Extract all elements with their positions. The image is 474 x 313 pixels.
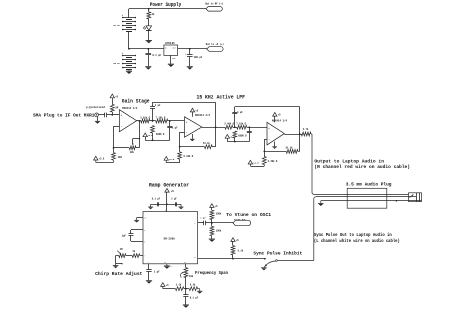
svg-text:51.1k: 51.1k: [203, 142, 211, 145]
wire U2A output: [137, 120, 141, 122]
svg-text:10: 10: [184, 262, 186, 264]
capacitor C2 100uF: [189, 49, 191, 55]
svg-text:11: 11: [194, 257, 196, 259]
node B1/B2 junction: [128, 48, 130, 50]
ground C8: [150, 204, 152, 206]
resistor R8 51.1k: [205, 145, 213, 149]
node C1 tap: [147, 48, 149, 50]
svg-text:1.1k: 1.1k: [176, 284, 182, 287]
resistor R1 1k LED: [148, 9, 150, 12]
resistor R5 3.01k: [141, 119, 150, 123]
resistor R6 680k bias: [151, 126, 155, 133]
node feedback junction: [113, 147, 115, 149]
wire C3 to node: [107, 114, 120, 116]
resistor R4 499: [113, 148, 115, 153]
potentiometer R16 1M chirp rate: [140, 255, 143, 257]
svg-text:13: 13: [144, 218, 146, 220]
svg-text:Chirp Rate Adjust: Chirp Rate Adjust: [95, 271, 143, 277]
svg-text:1 µF: 1 µF: [154, 271, 160, 274]
svg-text:0.1 µF: 0.1 µF: [152, 54, 161, 57]
power +5 flag R2: [110, 94, 114, 98]
resistor R7 7.15k: [156, 119, 168, 123]
wire R8 to output: [212, 146, 215, 148]
svg-text:100k: 100k: [216, 229, 222, 232]
svg-text:100 µF: 100 µF: [194, 56, 203, 59]
capacitor C12 0.1uF divider: [185, 289, 187, 295]
plug shaft: [409, 193, 422, 202]
svg-text:499: 499: [118, 156, 123, 159]
wire U1 GND: [170, 55, 172, 63]
capacitor C7 1uF to bias: [249, 127, 251, 131]
power +5 flag divider: [161, 283, 165, 287]
svg-text:+2.5: +2.5: [99, 158, 105, 161]
wire bias rail LPF1: [145, 140, 170, 142]
svg-text:-: -: [186, 131, 188, 134]
svg-text:MAX414 1/4: MAX414 1/4: [122, 107, 138, 110]
svg-text:10k: 10k: [130, 151, 135, 154]
svg-text:(L channel white wire on audio: (L channel white wire on audio cable): [314, 238, 400, 244]
svg-text:5.1k: 5.1k: [238, 249, 244, 252]
ground R19: [197, 290, 202, 293]
node fb U2B: [179, 146, 181, 148]
wire vtune to connector: [212, 222, 233, 224]
wire C6 feedback rail: [235, 106, 300, 108]
ground R21: [209, 238, 215, 241]
svg-text:3.5 mm Audio Plug: 3.5 mm Audio Plug: [346, 181, 392, 187]
wire fb run: [180, 146, 205, 148]
wire pot wiper: [139, 138, 141, 140]
ground C11: [146, 279, 152, 282]
power +2.5 flag U2B: [164, 157, 168, 161]
plug tip arrow: [409, 195, 413, 198]
ground pin 12: [166, 264, 168, 266]
resistor R14 2.49k: [264, 151, 266, 156]
svg-text:15 KHz Active LPF: 15 KHz Active LPF: [197, 94, 246, 100]
svg-text:7.15k Ω: 7.15k Ω: [156, 116, 166, 119]
regulator U1 LM78L05: [164, 45, 178, 55]
svg-text:0.1 µF: 0.1 µF: [152, 197, 161, 200]
svg-text:+5: +5: [171, 190, 175, 193]
op-amp U2C MAX414 3/4: [267, 122, 284, 145]
ground shield: [320, 201, 322, 203]
capacitor C8 0.1uF bypass: [157, 202, 159, 206]
IC U3 XR-2206: [143, 212, 198, 264]
wire R9 to +2.5: [166, 162, 179, 164]
node sync pullup: [232, 258, 234, 260]
svg-text:B2 6V: B2 6V: [114, 62, 121, 65]
resistor R22 5.1k pullup: [231, 246, 235, 255]
svg-text:51.1k: 51.1k: [286, 147, 294, 150]
capacitor C11 1uF pin bottom: [148, 264, 150, 270]
svg-text:+2.5: +2.5: [169, 158, 175, 161]
wire pot to divider: [185, 278, 187, 289]
svg-text:Gain Stage: Gain Stage: [122, 99, 150, 105]
node op-amp + input: [111, 114, 113, 116]
svg-text:1 µF: 1 µF: [171, 197, 177, 200]
svg-text:GND: GND: [172, 58, 175, 60]
svg-text:1 µF: 1 µF: [200, 217, 206, 220]
svg-text:Frequency Span: Frequency Span: [195, 271, 228, 276]
wire L channel: [316, 196, 416, 198]
wire shield: [321, 200, 422, 202]
power +5 flag vtune: [210, 204, 214, 208]
node shield dot: [396, 200, 398, 202]
wire pot to output tap: [136, 147, 139, 149]
svg-text:680K Ω: 680K Ω: [238, 134, 247, 137]
potentiometer R3 10k gain: [129, 146, 136, 150]
svg-text:-: -: [121, 125, 123, 128]
wire SMA to C3: [99, 114, 106, 116]
node A LPF2: [233, 127, 237, 129]
svg-text:1µF: 1µF: [122, 234, 127, 237]
wire bypass rail: [151, 204, 181, 206]
svg-text:7.15k Ω: 7.15k Ω: [236, 122, 246, 125]
wire R channel: [314, 194, 409, 196]
power +2.5 flag LPF1: [143, 133, 147, 137]
svg-text:1 µF: 1 µF: [237, 111, 243, 114]
power +5 flag U3: [165, 188, 169, 192]
ground C9: [180, 204, 182, 206]
resistor R13 51.1k: [286, 150, 298, 154]
wire R4 to +2.5 flag: [96, 162, 114, 164]
node U2B out: [215, 126, 217, 128]
svg-text:0.1 µF: 0.1 µF: [190, 296, 199, 299]
svg-text:(R channel red wire on audio c: (R channel red wire on audio cable): [314, 164, 410, 170]
wire B1 to mid rail: [128, 32, 130, 49]
capacitor C5 1uF to bias: [169, 121, 171, 126]
svg-text:Sync Pulse Out to Laptop Audio: Sync Pulse Out to Laptop Audio in: [314, 232, 392, 238]
resistor R2 2M pullup: [112, 112, 114, 115]
svg-text:10k: 10k: [189, 275, 194, 278]
svg-text:680K Ω: 680K Ω: [156, 133, 165, 136]
audio plug body: [347, 188, 387, 208]
resistor R18 1.1k: [176, 287, 184, 291]
power +2.5 flag U2C: [248, 160, 252, 164]
wire - input U2A: [114, 126, 120, 128]
node vtune: [211, 222, 213, 224]
connector Vtune Out: [233, 220, 251, 225]
svg-text:SMA Plug to IF Out MXR1: SMA Plug to IF Out MXR1: [33, 112, 95, 118]
svg-text:4.7k: 4.7k: [303, 128, 309, 131]
switch jumper sync inhibit: [276, 260, 278, 262]
svg-text:OUT: OUT: [173, 48, 176, 50]
wire bias rail LPF2: [227, 141, 249, 143]
ground U2C: [274, 142, 276, 147]
power +5 flag sync: [231, 238, 235, 242]
resistor R15 4.7k: [301, 132, 311, 136]
node bypass rail: [166, 203, 168, 205]
svg-text:XR-2206: XR-2206: [164, 237, 176, 240]
svg-text:Ramp Generator: Ramp Generator: [149, 182, 189, 188]
svg-text:3.01k Ω: 3.01k Ω: [140, 116, 150, 119]
op-amp U2A MAX414 1/4: [119, 110, 136, 132]
wire to audio R channel: [311, 133, 312, 135]
svg-text:Output to Laptop Audio in: Output to Laptop Audio in: [314, 159, 384, 165]
svg-text:IN: IN: [165, 48, 167, 50]
ground B2: [128, 70, 130, 71]
svg-text:Out to +5 (+): Out to +5 (+): [206, 43, 224, 46]
wire +5V out rail: [178, 48, 207, 50]
svg-text:+2.5: +2.5: [253, 162, 259, 165]
resistor R11 680k bias: [233, 131, 237, 138]
wire sync pin: [198, 258, 266, 260]
svg-text:2.49k Ω: 2.49k Ω: [268, 160, 278, 163]
svg-text:-: -: [268, 138, 270, 141]
battery B2 6V: [123, 55, 136, 57]
svg-text:To Vtune on OSC1: To Vtune on OSC1: [226, 212, 271, 218]
wire pot to ground: [116, 255, 119, 257]
node C2 tap: [189, 48, 191, 50]
svg-text:Out to RF (+): Out to RF (+): [205, 3, 223, 6]
power +2.5 flag gain: [94, 156, 98, 160]
capacitor C6 1uF feedback: [234, 114, 236, 127]
node LED tap: [148, 8, 150, 10]
node U2C out: [299, 133, 301, 135]
resistor R21 100k lower: [211, 223, 213, 227]
capacitor C10 1uF timing: [131, 229, 143, 231]
power +2.5 flag LPF2: [225, 135, 229, 139]
svg-text:Sync Pulse Inhibit: Sync Pulse Inhibit: [253, 251, 302, 257]
node output tap: [139, 120, 141, 122]
resistor R9 6.19k: [179, 147, 181, 152]
svg-text:2: 2: [194, 223, 195, 225]
resistor R10 2.49k: [225, 125, 233, 129]
svg-text:Power Supply: Power Supply: [150, 2, 182, 8]
ground C12: [183, 304, 189, 307]
ground chirp pot: [113, 264, 119, 267]
wire +6V mid rail: [129, 48, 164, 50]
ground LED: [146, 39, 152, 42]
node A LPF1: [150, 120, 156, 122]
power +5 flag U2C: [273, 112, 277, 116]
battery B1 6V: [128, 9, 130, 18]
capacitor C4 1uF feedback: [152, 108, 154, 121]
svg-text:5: 5: [144, 230, 145, 232]
svg-text:100k: 100k: [216, 213, 222, 216]
wire +12V top rail: [129, 8, 206, 10]
wire node to pot: [114, 147, 130, 149]
capacitor C3 4.7uF: [104, 113, 106, 118]
potentiometer R17 frequency span: [185, 264, 187, 268]
ground U1: [168, 63, 174, 66]
svg-text:1 µF: 1 µF: [172, 126, 178, 129]
svg-text:2.49k Ω: 2.49k Ω: [224, 122, 234, 125]
svg-text:Vtune Out: Vtune Out: [234, 218, 247, 221]
power +5 flag U2B: [190, 108, 194, 112]
SMA plug J1: [95, 113, 99, 117]
svg-text:7: 7: [144, 256, 145, 258]
wire U2C output: [284, 134, 301, 136]
connector Out to +5 (+): [207, 47, 223, 52]
wire U2B output rail: [202, 127, 225, 129]
wire - input U2C: [264, 139, 267, 141]
resistor R12 7.15k: [237, 125, 247, 129]
node B LPF1: [168, 120, 185, 122]
node fb U2C: [263, 151, 265, 153]
svg-text:4: 4: [165, 210, 166, 212]
capacitor C13 1uF vtune coupling: [198, 222, 204, 224]
wire C4 feedback rail: [153, 102, 216, 104]
op-amp U2B MAX414 2/4: [185, 117, 202, 137]
svg-text:12: 12: [164, 262, 166, 264]
ground SMA shield: [97, 117, 99, 121]
svg-text:6: 6: [144, 241, 145, 243]
pin 1 wire to ground: [137, 217, 143, 219]
svg-text:12: 12: [170, 266, 172, 268]
svg-text:1: 1: [148, 262, 149, 264]
ground U2B: [192, 134, 194, 139]
wire - input U2B: [180, 132, 185, 134]
capacitor C1 0.1uF: [148, 49, 150, 53]
node B LPF2: [247, 127, 267, 129]
connector Out to RF (+): [206, 7, 222, 12]
wire LED to ground: [148, 30, 150, 40]
svg-text:+2.5: +2.5: [148, 134, 154, 137]
wire R1 to LED: [148, 19, 150, 26]
svg-text:MAX414 2/4: MAX414 2/4: [195, 114, 211, 117]
svg-text:LM78L05: LM78L05: [165, 42, 175, 45]
svg-text:(+)polarized: (+)polarized: [86, 105, 106, 109]
svg-text:+2.5: +2.5: [230, 135, 236, 138]
svg-text:8.2k: 8.2k: [190, 284, 196, 287]
ground C1: [145, 65, 151, 68]
wire sync to plug: [277, 260, 314, 262]
resistor R20 100k upper: [210, 210, 214, 219]
LED D1: [146, 26, 152, 30]
node divider: [185, 288, 187, 290]
svg-text:1 µF: 1 µF: [155, 104, 161, 107]
ground C2: [187, 65, 193, 68]
capacitor C9 1uF bypass: [175, 202, 177, 206]
resistor R19 8.2k: [189, 287, 197, 291]
svg-text:B1 6V: B1 6V: [114, 24, 121, 27]
svg-text:6.19k Ω: 6.19k Ω: [184, 155, 194, 158]
